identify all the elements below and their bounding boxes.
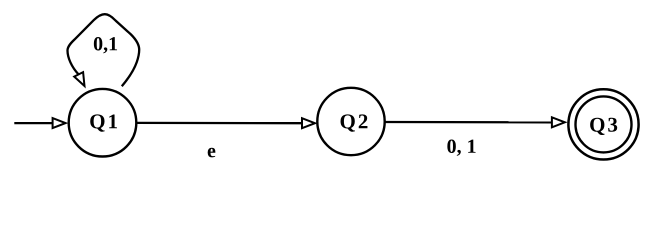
label Q1 (90, 114, 117, 131)
label 0, 1 (447, 140, 475, 156)
label 0,1 (94, 37, 117, 53)
start arrow wire (14, 122, 52, 124)
label e (208, 148, 216, 158)
state Q3 inner circle (576, 96, 632, 152)
label Q3 (590, 118, 617, 135)
label Q2 (341, 114, 368, 131)
state Q1 (69, 89, 137, 157)
self-loop on Q1 (68, 14, 140, 86)
edge Q1 to Q2 arrowhead (302, 118, 315, 128)
self-loop arrowhead (74, 72, 84, 86)
start arrowhead (53, 118, 66, 128)
edge Q2 to Q3 wire (385, 121, 552, 124)
state Q2 (317, 88, 384, 155)
edge Q1 to Q2 wire (136, 122, 302, 125)
state Q3 outer circle (568, 89, 638, 159)
edge Q2 to Q3 arrowhead (552, 117, 565, 127)
